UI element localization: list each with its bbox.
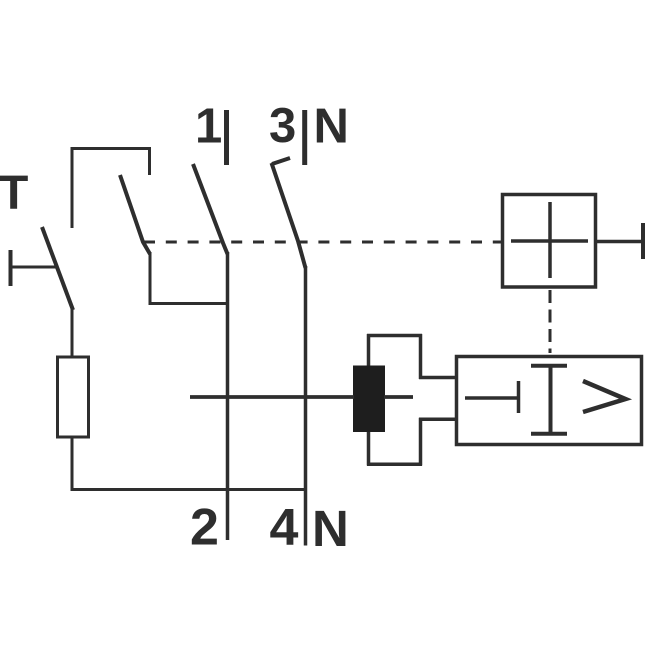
current transformer yoke top	[367, 334, 422, 338]
amplifier input symbol bar	[517, 381, 521, 413]
svg-text:3: 3	[269, 99, 296, 153]
trip relay cross vertical	[548, 202, 552, 278]
amplifier box	[457, 357, 642, 445]
wire: primary conductor through CT right	[384, 395, 413, 399]
pole 1 top terminal bar	[224, 110, 229, 165]
trip relay right terminal bar	[641, 223, 645, 259]
linkage switch blade	[120, 175, 150, 254]
trip relay cross horizontal	[511, 239, 588, 243]
wire: top bracket horizontal	[71, 147, 152, 150]
current transformer yoke right lower	[419, 418, 423, 466]
wire: resistor to bottom test wire	[71, 436, 74, 491]
wire: pole N vertical conductor	[304, 266, 308, 546]
wire: test switch fixed contact vertical	[71, 147, 74, 228]
mechanical linkage dashed line	[144, 241, 501, 244]
svg-text:N: N	[312, 500, 349, 557]
test button actuator lead	[12, 266, 57, 269]
trip relay box	[503, 195, 596, 288]
amplifier I-beam top bar	[531, 364, 567, 368]
pole N blade hook	[272, 158, 290, 164]
wire: linkage switch vertical	[149, 252, 152, 305]
svg-text:N: N	[314, 100, 349, 154]
dashed link relay to amplifier	[549, 290, 552, 353]
pole N top terminal bar	[302, 110, 307, 165]
wire: CT secondary lower lead	[419, 418, 457, 422]
test switch blade	[42, 227, 73, 310]
pole 1 contact blade	[193, 164, 228, 254]
amplifier I-beam vertical	[549, 365, 553, 435]
resistor R (test resistor)	[58, 357, 89, 437]
amplifier input symbol lead	[465, 396, 519, 400]
current transformer yoke left	[367, 334, 371, 466]
wire: bottom test wire to neutral pole	[71, 488, 308, 491]
svg-text:T: T	[0, 167, 28, 220]
current transformer yoke right upper	[419, 334, 423, 379]
wire: pole 1 vertical conductor	[226, 252, 230, 540]
svg-text:2: 2	[190, 499, 219, 557]
wire: CT secondary upper lead	[419, 376, 457, 380]
wire: primary conductor through CT left	[190, 395, 354, 399]
pole N contact blade	[272, 163, 306, 268]
amplifier I-beam bottom bar	[531, 432, 567, 436]
wire: test switch to resistor	[71, 307, 74, 358]
current transformer yoke bottom	[367, 463, 422, 467]
test button terminal bar	[9, 250, 13, 286]
wire: trip relay right lead	[596, 240, 643, 244]
wire: top bracket right vertical (linkage switch fixed contact)	[148, 148, 151, 175]
wire: linkage to pole 1 horizontal	[149, 302, 230, 305]
amplifier threshold symbol >	[583, 381, 626, 412]
svg-text:1: 1	[195, 100, 222, 154]
current transformer core (black)	[353, 366, 385, 433]
svg-text:4: 4	[270, 499, 299, 557]
